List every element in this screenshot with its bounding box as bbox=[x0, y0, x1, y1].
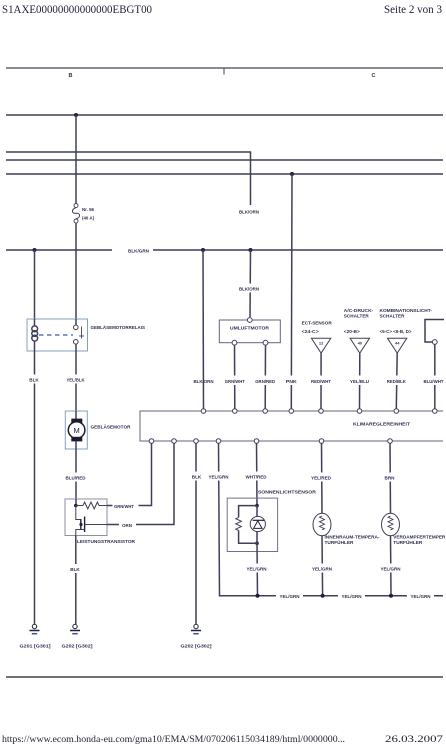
wire RED/BLK light switch to control unit bbox=[395, 353, 398, 409]
pin control unit top RED/WHT bbox=[319, 409, 324, 414]
svg-text:YEL/GRN: YEL/GRN bbox=[247, 567, 267, 572]
connector triangle ECT 12 bbox=[311, 338, 330, 353]
node junction at (203,250) bbox=[201, 248, 205, 252]
svg-text:BLK/ORN: BLK/ORN bbox=[239, 287, 259, 292]
svg-text:GRN/RED: GRN/RED bbox=[255, 379, 275, 384]
ground G201 [G301] bbox=[20, 624, 52, 648]
wire BLK/ORN feeder x=250.5 bbox=[249, 250, 252, 317]
svg-text:C: C bbox=[372, 73, 376, 79]
svg-text:YEL/GRN: YEL/GRN bbox=[312, 567, 332, 572]
pin umluft top terminal bbox=[247, 318, 252, 323]
pin control unit top RED/BLK bbox=[394, 409, 399, 414]
svg-text:https://www.ecom.honda-eu.com/: https://www.ecom.honda-eu.com/gma10/EMA/… bbox=[2, 735, 345, 745]
svg-text:BLU/WHT: BLU/WHT bbox=[424, 379, 444, 384]
svg-text:M: M bbox=[73, 426, 79, 435]
wire BLK transistor to ground x=75.8 bbox=[75, 536, 77, 625]
svg-text:BLK/GRN: BLK/GRN bbox=[128, 249, 149, 254]
svg-text:<5-C> <6-B, D>: <5-C> <6-B, D> bbox=[380, 329, 412, 334]
wire GRN/WHT transistor to control unit bbox=[107, 443, 152, 506]
label BLK/ORN (upper, x=250 y=211) bbox=[237, 207, 263, 216]
label BRN bbox=[382, 473, 398, 482]
transistor Q1 (power FET) bbox=[76, 506, 107, 536]
wire bus y=152 bbox=[6, 152, 251, 205]
sensor header KOMBINATIONSLICHTSCHALTER bbox=[380, 308, 433, 334]
node junction sensor bus at sun sensor bbox=[256, 594, 260, 598]
svg-text:BLU/RED: BLU/RED bbox=[66, 476, 86, 481]
wire YEL/BLU A/C switch to control unit bbox=[359, 353, 361, 409]
relay dashed actuator line bbox=[39, 334, 73, 336]
svg-text:YEL/GRN: YEL/GRN bbox=[381, 567, 401, 572]
wire BLU/WHT to control unit bbox=[434, 344, 436, 409]
svg-text:GRN/WHT: GRN/WHT bbox=[225, 379, 245, 384]
control unit box KLIMAREGLEREINHEIT bbox=[140, 411, 443, 441]
svg-text:SONNENLICHTSENSOR: SONNENLICHTSENSOR bbox=[258, 490, 317, 495]
svg-text:A/C-DRUCK-: A/C-DRUCK- bbox=[344, 308, 374, 313]
svg-text:UMLUFTMOTOR: UMLUFTMOTOR bbox=[230, 326, 270, 331]
label BLK transistor ground bbox=[68, 564, 83, 573]
wire BLU/WHT hook from off-page bbox=[425, 320, 444, 343]
svg-text:BLK: BLK bbox=[29, 378, 39, 383]
svg-text:PNK: PNK bbox=[286, 379, 298, 384]
evaporator temp sensor VERDAMPFERTEMPERATURFUEHLER bbox=[382, 513, 446, 545]
pin umluft bottom-right terminal bbox=[263, 340, 268, 345]
node junction at (292,174) bbox=[290, 172, 294, 176]
svg-text:TURFÜHLER: TURFÜHLER bbox=[393, 540, 423, 545]
connector triangle KOMBI 44 bbox=[388, 338, 407, 353]
wire fuse to relay contact x=76 bbox=[75, 223, 77, 319]
wire relay coil feed x=34.5 bbox=[34, 250, 36, 319]
svg-text:40: 40 bbox=[358, 340, 363, 345]
svg-text:YEL/RED: YEL/RED bbox=[311, 476, 331, 481]
svg-text:YEL/BLU: YEL/BLU bbox=[350, 379, 369, 384]
pin BLU/WHT terminal circle bbox=[432, 340, 437, 345]
pin control unit bottom YEL/GRN bbox=[216, 439, 221, 444]
svg-text:26.03.2007: 26.03.2007 bbox=[385, 735, 443, 745]
wire GRN/RED umluft to control unit bbox=[264, 345, 266, 409]
grid tick divider bbox=[223, 68, 225, 75]
svg-text:(40 A): (40 A) bbox=[82, 216, 95, 221]
svg-text:B: B bbox=[69, 73, 73, 79]
frame top border line bbox=[6, 67, 443, 69]
pin control unit top GRN/RED bbox=[263, 409, 268, 414]
svg-text:YEL/GRN: YEL/GRN bbox=[209, 475, 229, 480]
label GRN/WHT bbox=[113, 501, 139, 510]
wire bus y=115 bbox=[6, 114, 443, 116]
svg-text:YEL/GRN: YEL/GRN bbox=[342, 594, 362, 599]
wire YEL/BLK relay to motor x=76 bbox=[75, 351, 77, 411]
svg-text:BLK: BLK bbox=[192, 475, 202, 480]
resistor branch in sun sensor bbox=[236, 506, 257, 544]
relay contact bbox=[74, 319, 85, 351]
svg-text:BRN: BRN bbox=[385, 476, 395, 481]
svg-text:BLK/ORN: BLK/ORN bbox=[239, 210, 259, 215]
node junction at (250.5,250) bbox=[249, 248, 253, 252]
svg-text:TURFÜHLER: TURFÜHLER bbox=[325, 540, 355, 545]
node junction at (34.5,250) bbox=[33, 248, 37, 252]
wire BLU/RED motor to transistor x=76 bbox=[75, 449, 77, 499]
svg-text:RED/WHT: RED/WHT bbox=[311, 379, 331, 384]
pin control unit top BLU/WHT bbox=[433, 409, 438, 414]
svg-text:ORN: ORN bbox=[122, 523, 132, 528]
wire BLK/ORN long feeder x=203 bbox=[202, 250, 205, 409]
pin control unit bottom BRN bbox=[388, 439, 393, 444]
svg-text:GEBLÄSEMOTOR: GEBLÄSEMOTOR bbox=[91, 424, 132, 430]
wire BRN control unit to evaporator sensor bbox=[389, 443, 392, 513]
pin control unit bottom ORN bbox=[172, 439, 177, 444]
node junction sensor bus at cabin sensor bbox=[321, 594, 325, 598]
label row gap above control unit bbox=[188, 376, 446, 386]
recirculation motor box UMLUFTMOTOR bbox=[219, 320, 280, 343]
relay box GEBLAESEMOTORRELAIS bbox=[27, 319, 145, 351]
transistor box LEISTUNGSTRANSISTOR bbox=[65, 499, 136, 544]
wire ORN transistor to control unit bbox=[107, 443, 174, 525]
sensor header ECT-SENSOR bbox=[302, 321, 333, 334]
label YEL/GRN bus inline 3 bbox=[407, 591, 434, 601]
wire BLK/GRN bus y=250 bbox=[6, 249, 443, 251]
svg-text:VERDAMPFERTEMPER: VERDAMPFERTEMPER bbox=[393, 535, 446, 540]
wire WHT/RED control unit to sun sensor bbox=[256, 443, 259, 505]
svg-text:Nr. 56: Nr. 56 bbox=[82, 207, 95, 212]
label BLU/RED bbox=[63, 473, 89, 482]
label YEL/GRN sun sensor bbox=[244, 564, 271, 573]
svg-text:<20-B>: <20-B> bbox=[344, 329, 360, 334]
label YEL/GRN bus inline 1 bbox=[276, 591, 303, 601]
relay coil bbox=[32, 319, 38, 351]
motor box GEBLAESEMOTOR bbox=[65, 411, 131, 449]
svg-text:GEBLÄSEMOTORRELAIS: GEBLÄSEMOTORRELAIS bbox=[91, 324, 146, 330]
pin control unit bottom GRN/WHT bbox=[149, 439, 154, 444]
node junction at (75.8,505.5) bbox=[74, 504, 78, 508]
ground G202 [G302] right bbox=[181, 624, 213, 648]
wire GRN/WHT umluft to control unit bbox=[234, 345, 236, 409]
pin control unit bottom YEL/RED bbox=[319, 439, 324, 444]
wire RED/WHT ECT to control unit bbox=[320, 353, 322, 409]
svg-text:G202 [G302]: G202 [G302] bbox=[62, 644, 94, 649]
ground G202 [G302] left bbox=[62, 624, 94, 648]
svg-text:44: 44 bbox=[395, 340, 400, 345]
wire PNK from bus y=174 to control unit x=292 bbox=[290, 174, 293, 409]
wire BLK relay to ground x=34.5 bbox=[34, 351, 36, 624]
svg-text:YEL/GRN: YEL/GRN bbox=[411, 594, 431, 599]
label BLK/GRN inline bbox=[112, 245, 153, 255]
wire BLK control unit to ground x=196 bbox=[195, 443, 197, 624]
pin control unit bottom WHT/RED bbox=[254, 439, 259, 444]
svg-text:G201 [G301]: G201 [G301] bbox=[20, 644, 52, 649]
svg-text:12: 12 bbox=[319, 340, 324, 345]
node junction at (76,115) bbox=[74, 113, 78, 117]
svg-text:KOMBINATIONSLICHT-: KOMBINATIONSLICHT- bbox=[380, 308, 433, 313]
label ORN bbox=[119, 520, 136, 529]
label WHT/RED bbox=[243, 472, 270, 481]
svg-text:SCHALTER: SCHALTER bbox=[344, 313, 370, 318]
resistor in transistor box bbox=[76, 502, 107, 509]
svg-text:YEL/BLK: YEL/BLK bbox=[67, 378, 86, 383]
svg-text:S1AXE00000000000000EBGT00: S1AXE00000000000000EBGT00 bbox=[2, 2, 152, 16]
wire fuse feed vertical x=76 bbox=[75, 115, 77, 204]
svg-text:RED/BLK: RED/BLK bbox=[387, 379, 407, 384]
node junction sensor bus at evaporator sensor bbox=[389, 594, 393, 598]
sensor header A/C-DRUCKSCHALTER bbox=[344, 308, 374, 334]
wire YEL/GRN cabin sensor down bbox=[321, 536, 324, 596]
wire YEL/GRN control unit to sensor bus bbox=[219, 443, 444, 595]
svg-text:INNENRAUM-TEMPERA-: INNENRAUM-TEMPERA- bbox=[325, 535, 381, 540]
wire YEL/GRN sun sensor down bbox=[256, 543, 259, 596]
svg-text:LEISTUNGSTRANSISTOR: LEISTUNGSTRANSISTOR bbox=[77, 539, 136, 544]
svg-text:YEL/GRN: YEL/GRN bbox=[280, 594, 300, 599]
pin control unit top PNK bbox=[289, 409, 294, 414]
pin control unit bottom BLK bbox=[194, 439, 199, 444]
svg-text:WHT/RED: WHT/RED bbox=[246, 475, 267, 480]
pin umluft bottom-left terminal bbox=[232, 340, 237, 345]
wire YEL/GRN evaporator sensor down bbox=[390, 536, 393, 596]
svg-text:KLIMAREGLEREINHEIT: KLIMAREGLEREINHEIT bbox=[353, 422, 410, 427]
wire bus y=160 bbox=[6, 159, 443, 161]
pin control unit top GRN/WHT bbox=[233, 409, 238, 414]
label BLK/ORN (lower, x=249 y=288) bbox=[237, 284, 263, 293]
fuse Nr. 56 (40 A) bbox=[72, 204, 94, 224]
label BLK bbox=[27, 375, 42, 384]
wire YEL/RED control unit to cabin sensor bbox=[321, 443, 324, 513]
frame bottom border line bbox=[6, 676, 443, 678]
motor M symbol bbox=[68, 411, 85, 449]
svg-text:ECT-SENSOR: ECT-SENSOR bbox=[302, 321, 333, 326]
svg-text:Seite 2 von 3: Seite 2 von 3 bbox=[384, 4, 442, 16]
label YEL/RED bbox=[309, 473, 335, 482]
svg-text:BLK: BLK bbox=[70, 567, 80, 572]
wire into transistor bbox=[75, 499, 77, 506]
svg-text:<24-C>: <24-C> bbox=[302, 329, 319, 334]
svg-text:G202 [G302]: G202 [G302] bbox=[181, 644, 213, 649]
sun sensor box SONNENLICHTSENSOR bbox=[227, 490, 317, 552]
photodiode sun sensor bbox=[250, 506, 265, 544]
label YEL/GRN bus inline 2 bbox=[338, 591, 365, 601]
label YEL/GRN cabin sensor bbox=[309, 564, 336, 573]
label YEL/GRN vertical bbox=[206, 472, 232, 481]
pin control unit top YEL/BLU bbox=[357, 409, 362, 414]
connector triangle A/C 40 bbox=[350, 338, 369, 353]
pin control unit top BLK/ORN bbox=[201, 409, 206, 414]
svg-text:SCHALTER: SCHALTER bbox=[380, 313, 406, 318]
label YEL/BLK bbox=[64, 375, 88, 384]
cabin temp sensor INNENRAUM-TEMPERATURFUEHLER bbox=[313, 513, 380, 545]
node junction sun sensor bottom bbox=[255, 541, 259, 545]
label BLK control unit bbox=[189, 472, 204, 481]
label YEL/GRN evaporator sensor bbox=[378, 564, 405, 573]
wire bus y=174 bbox=[6, 173, 443, 175]
node junction sun sensor top bbox=[255, 504, 259, 508]
svg-text:GRN/WHT: GRN/WHT bbox=[114, 504, 134, 509]
